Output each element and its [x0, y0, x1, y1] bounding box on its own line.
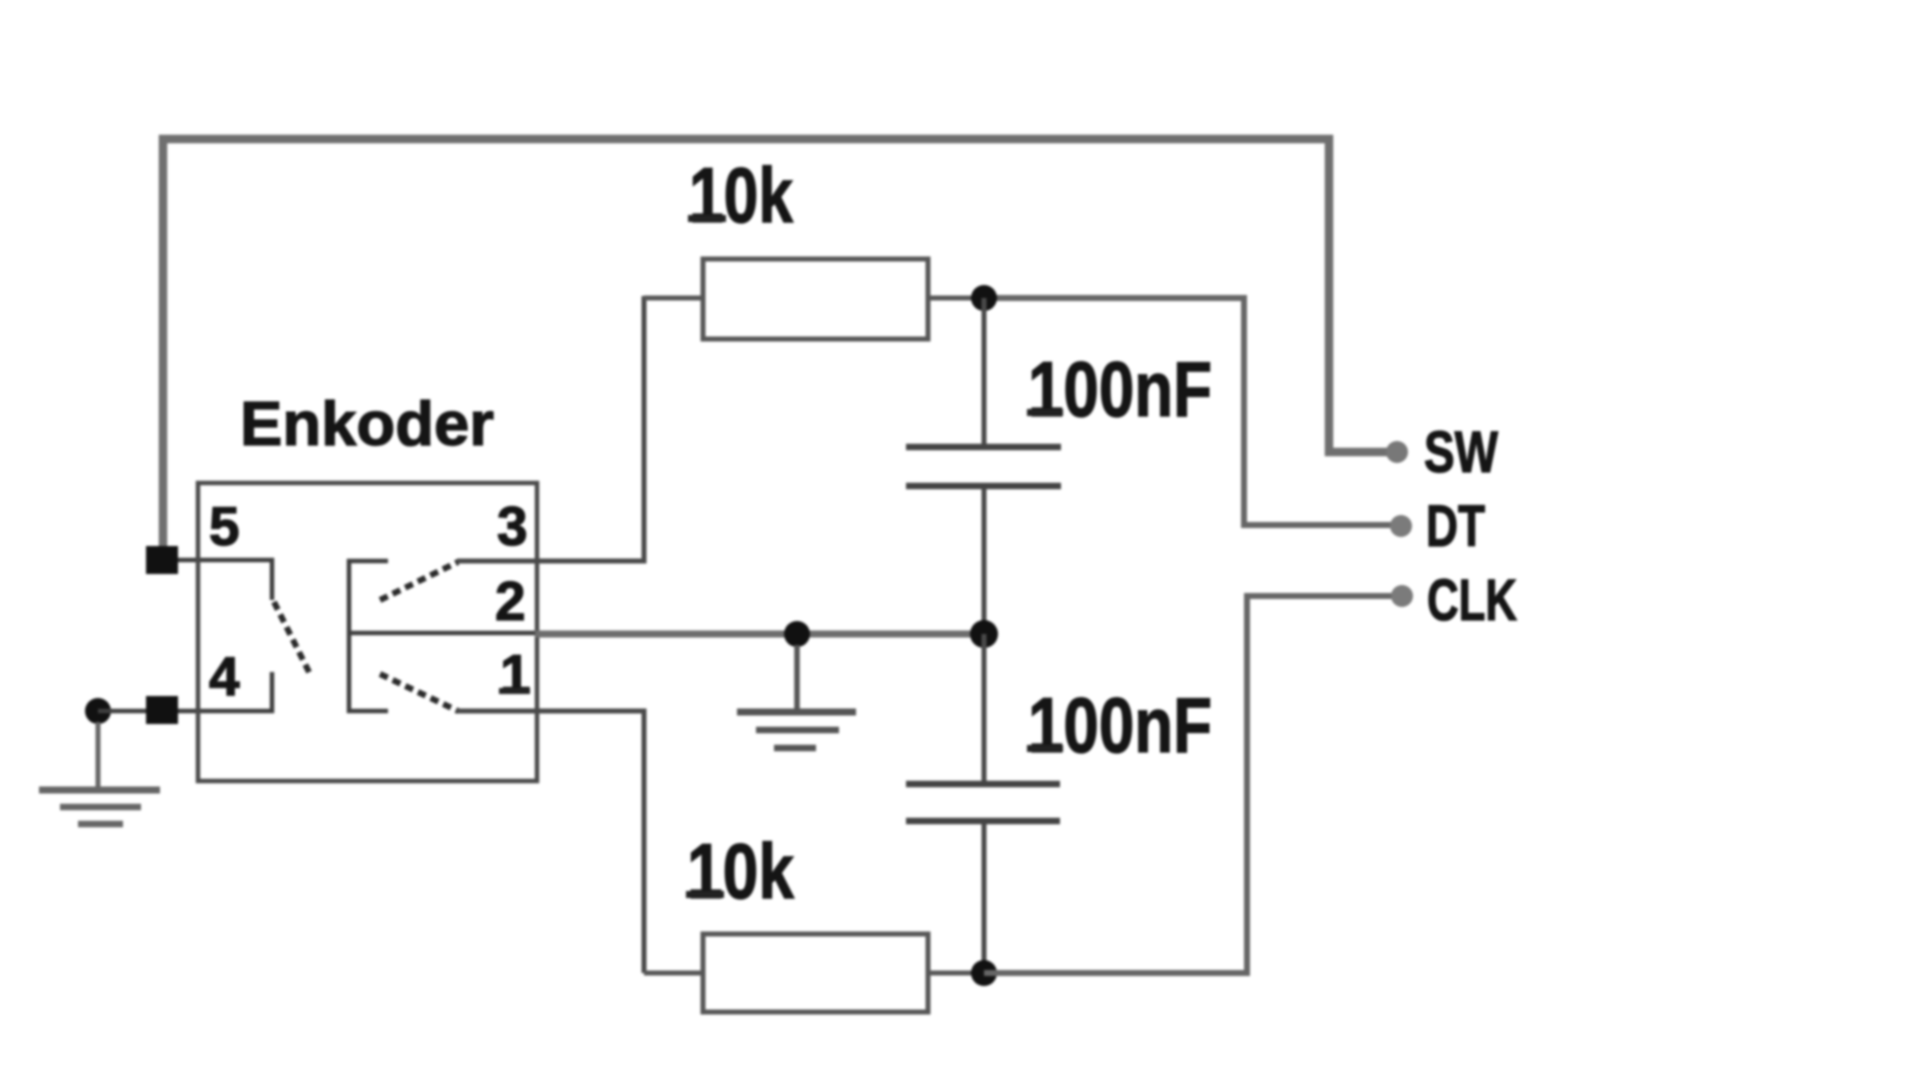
svg-text:5: 5 [209, 495, 240, 557]
svg-text:2: 2 [495, 570, 526, 632]
svg-text:10k: 10k [689, 151, 793, 239]
svg-text:DT: DT [1426, 494, 1485, 559]
resistor R2 body [703, 934, 928, 1012]
node pin2/C1/C2 junction dot [970, 620, 998, 648]
node SW terminal dot [1386, 441, 1408, 463]
node R2/C2 junction dot [971, 960, 997, 986]
wire CLK net: junction to CLK terminal [984, 596, 1394, 973]
capacitor C1 bottom lead [982, 489, 987, 634]
encoder common bracket [349, 561, 388, 711]
wire pin5 to switch contact [178, 560, 272, 600]
node pin5 square terminal [146, 546, 178, 574]
wire pin4 to switch contact [178, 672, 272, 711]
ground GND2 (middle) [737, 645, 856, 748]
node R1/C1 junction dot [971, 285, 997, 311]
wire ground dot to pin4 square [98, 709, 146, 714]
svg-text:Enkoder: Enkoder [240, 390, 494, 459]
node pin4 ground junction dot [85, 698, 111, 724]
svg-text:4: 4 [209, 645, 240, 707]
resistor R1 left lead [644, 296, 703, 301]
node CLK terminal dot [1391, 585, 1413, 607]
wire pin2 net (gray) [349, 631, 537, 636]
resistor R2 left lead [644, 971, 703, 976]
wire DT net: junction to DT terminal [984, 298, 1393, 525]
wire pin3 to resistor R1 riser [457, 296, 644, 561]
node DT terminal dot [1390, 515, 1412, 537]
svg-text:CLK: CLK [1427, 568, 1517, 633]
switch S2 actuator to pin3 (dashed) [380, 562, 458, 600]
switch S3 actuator to pin1 (dashed) [380, 674, 458, 711]
svg-text:SW: SW [1424, 420, 1498, 485]
resistor R1 right lead [928, 296, 984, 301]
svg-text:3: 3 [497, 495, 528, 557]
svg-text:10k: 10k [687, 827, 795, 915]
capacitor C1 plates [906, 444, 1061, 451]
switch S1 actuator (dashed) [274, 602, 310, 674]
wire pin1 to resistor R2 drop [457, 711, 644, 973]
svg-text:100nF: 100nF [1028, 681, 1212, 769]
capacitor C2 top lead [982, 634, 987, 781]
svg-text:100nF: 100nF [1028, 345, 1212, 433]
capacitor C2 plates [906, 781, 1060, 788]
encoder U1 box [198, 483, 537, 781]
ground GND1 (left) [39, 722, 160, 824]
capacitor C1 top lead [982, 298, 987, 444]
node pin4 square terminal [146, 696, 178, 724]
resistor R2 right lead [928, 971, 984, 976]
node pin2 ground tap dot [784, 621, 810, 647]
capacitor C2 bottom lead [982, 824, 987, 973]
svg-text:1: 1 [500, 643, 531, 705]
resistor R1 body [703, 259, 928, 339]
wire SW net: top wire, left drop to pin 5, right drop to SW terminal [163, 139, 1392, 550]
